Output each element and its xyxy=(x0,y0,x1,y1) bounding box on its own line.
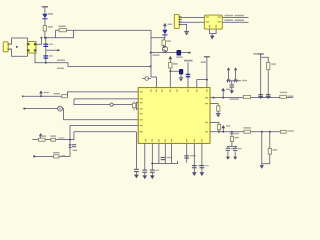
diode D3 xyxy=(69,144,72,148)
resistor R10 xyxy=(280,95,287,98)
wire xyxy=(210,104,218,106)
wire xyxy=(151,77,156,88)
label C16 xyxy=(197,165,201,166)
node P xyxy=(267,97,269,99)
wire row A xyxy=(32,139,74,141)
node Q xyxy=(218,131,220,133)
wire xyxy=(217,111,219,113)
wire pin B8 xyxy=(201,143,203,172)
ground GND11 xyxy=(192,172,197,176)
wire xyxy=(74,99,110,105)
wire xyxy=(45,38,47,63)
node D xyxy=(150,65,152,67)
pins J1 xyxy=(7,44,11,49)
arrow xyxy=(58,49,61,51)
resistor R1 xyxy=(43,26,46,32)
label R6 xyxy=(50,135,56,136)
label R3 xyxy=(166,40,171,41)
capacitor C8 xyxy=(258,94,263,97)
port P1 xyxy=(142,77,151,81)
ground GND8 xyxy=(260,165,264,169)
wire xyxy=(218,130,220,132)
label C2 xyxy=(49,55,53,56)
ground GND5 xyxy=(216,113,221,117)
wire xyxy=(262,154,270,164)
label netF xyxy=(230,133,240,135)
wire xyxy=(182,24,187,31)
resistor R5 xyxy=(38,138,45,141)
node E xyxy=(45,37,47,39)
capacitor C6 xyxy=(72,144,76,147)
wire pin B5 xyxy=(171,143,173,163)
port P2 xyxy=(110,103,113,106)
wire xyxy=(226,80,241,82)
label VCC2 xyxy=(168,24,173,25)
label R16 xyxy=(173,63,178,64)
capacitor C10 xyxy=(226,146,230,156)
wire xyxy=(170,70,181,72)
pin labels U1 left xyxy=(140,91,143,132)
ground GND10 xyxy=(150,175,155,179)
wire xyxy=(231,81,233,85)
op-amp U2 xyxy=(204,15,222,29)
wire xyxy=(197,80,207,88)
node F xyxy=(150,52,152,54)
pin labels U1 bottom xyxy=(145,139,203,142)
pin labels U2 xyxy=(206,16,221,27)
wire xyxy=(181,52,188,54)
label R14 xyxy=(234,137,239,138)
resistor R16 xyxy=(169,62,172,68)
label net5 xyxy=(184,60,193,62)
wire xyxy=(56,29,59,31)
label net4 xyxy=(225,20,245,22)
capacitor C20 xyxy=(230,84,235,87)
node B xyxy=(40,37,42,39)
label R5 xyxy=(39,135,46,136)
node T xyxy=(261,131,263,133)
part U3 xyxy=(27,42,36,54)
wire xyxy=(260,57,262,97)
power VCC3 xyxy=(168,56,172,63)
resistor R11 xyxy=(217,106,220,111)
capacitor C3 xyxy=(177,50,182,56)
node K xyxy=(40,139,42,141)
label VCC8 xyxy=(253,53,258,55)
label C13 xyxy=(155,170,159,171)
wire bus xyxy=(152,161,178,164)
resistor R18 xyxy=(281,130,287,133)
node J xyxy=(69,139,71,141)
wire xyxy=(179,21,204,23)
transistor Q1 xyxy=(162,46,167,52)
label VCC5 xyxy=(44,92,49,93)
wire xyxy=(164,38,165,40)
wire xyxy=(261,132,263,166)
wire xyxy=(45,30,74,38)
wire pin B1 xyxy=(144,143,146,169)
resistor R6 xyxy=(51,138,56,141)
label R7 xyxy=(53,152,60,153)
ground GND4 xyxy=(134,175,139,179)
power VCC6 xyxy=(39,133,42,140)
wire xyxy=(35,53,151,66)
capacitor C14 xyxy=(161,157,166,160)
wire xyxy=(37,38,42,44)
wire row L5 xyxy=(70,125,138,127)
wire xyxy=(62,109,65,120)
wire xyxy=(231,132,233,137)
wire row L4 xyxy=(63,119,138,121)
wire xyxy=(113,104,132,106)
wire xyxy=(179,16,204,18)
wire xyxy=(180,74,182,77)
resistor R4 xyxy=(62,95,68,98)
wire right R1row xyxy=(210,97,293,99)
power VCC8 xyxy=(258,54,264,57)
label C14 xyxy=(166,157,172,158)
label C11 xyxy=(238,148,241,149)
node H xyxy=(206,79,208,81)
node L xyxy=(33,155,35,157)
arrow xyxy=(22,107,25,109)
arrow xyxy=(16,46,19,48)
power VCC5 xyxy=(39,90,43,96)
label C10 xyxy=(231,148,234,149)
label R10 xyxy=(280,92,288,93)
node M xyxy=(213,97,215,99)
wire xyxy=(73,132,75,140)
wire pin B6 xyxy=(186,143,188,162)
resistor R12 xyxy=(217,124,220,129)
capacitor C9 xyxy=(266,94,271,97)
capacitor C12 xyxy=(142,170,147,173)
resistor R9 xyxy=(267,62,270,69)
wire xyxy=(269,132,271,149)
capacitor C11 xyxy=(233,146,237,156)
pin labels U1 top xyxy=(150,89,207,92)
label R13 xyxy=(243,127,251,128)
diode D1 xyxy=(42,14,47,20)
label C19 xyxy=(242,80,247,81)
label R9 xyxy=(271,63,276,64)
wire xyxy=(261,57,269,62)
wire row L3 xyxy=(24,108,57,110)
label C17 xyxy=(205,165,209,166)
wire xyxy=(67,92,138,96)
wire xyxy=(55,30,57,38)
wire xyxy=(231,142,233,147)
node U xyxy=(269,131,271,133)
pins J2 xyxy=(179,17,182,25)
wire loop xyxy=(12,38,28,56)
capacitor C13 xyxy=(150,170,155,173)
wire row L2 xyxy=(74,98,138,100)
capacitor C15 xyxy=(184,155,189,158)
wire xyxy=(227,145,237,147)
capacitor C2 xyxy=(43,55,48,58)
wire xyxy=(44,31,46,38)
node V xyxy=(151,163,153,165)
diode D2 xyxy=(162,30,167,36)
label netA xyxy=(59,137,65,138)
resistor R2 xyxy=(59,29,67,32)
arrow xyxy=(189,51,192,54)
label net3 xyxy=(225,15,245,16)
connector J1 xyxy=(3,42,8,52)
label R2 xyxy=(59,26,66,27)
label net1 xyxy=(57,60,65,61)
wire xyxy=(222,17,248,19)
wire pin B4 xyxy=(164,143,166,163)
ground GND1 xyxy=(184,31,189,35)
capacitor C18 xyxy=(227,79,230,82)
wire xyxy=(151,173,153,176)
wire xyxy=(210,29,217,33)
wire right R4row xyxy=(210,131,285,133)
node R xyxy=(222,131,224,133)
wire xyxy=(169,68,171,88)
wire pin B2 xyxy=(151,143,153,169)
wire xyxy=(210,123,219,125)
label netB xyxy=(62,155,66,156)
label netC xyxy=(230,98,240,100)
node G xyxy=(169,70,171,72)
lamp LS1 xyxy=(58,106,63,111)
label C3 xyxy=(176,56,183,57)
resistor R14 xyxy=(230,137,233,142)
label R4 xyxy=(54,93,61,94)
wire row L1 xyxy=(22,95,62,97)
IC U1 xyxy=(138,88,210,144)
capacitor C19 xyxy=(234,79,237,82)
wire pin B3 xyxy=(158,143,160,163)
power VCC7 xyxy=(221,88,225,98)
capacitor C7 xyxy=(134,169,139,172)
label C15 xyxy=(190,155,196,156)
wire xyxy=(231,88,233,91)
label VCC7 xyxy=(226,89,231,90)
wire xyxy=(267,70,269,98)
node I xyxy=(40,95,42,97)
wire xyxy=(222,21,248,23)
node S xyxy=(231,131,233,133)
capacitor C4 xyxy=(179,69,183,74)
pin labels U1 right xyxy=(205,97,208,132)
node N xyxy=(222,97,224,99)
ground GND12 xyxy=(200,172,205,176)
wire xyxy=(67,30,152,77)
label D3 xyxy=(73,150,78,151)
resistor R15 xyxy=(268,149,271,155)
ground GND13 xyxy=(230,90,234,93)
label R15 xyxy=(272,149,277,150)
power VCC11 xyxy=(234,67,237,80)
connector J2 xyxy=(174,14,179,28)
ground GND7 xyxy=(233,157,237,160)
label VCC9 xyxy=(226,125,231,126)
node O xyxy=(260,97,262,99)
power VCC10 xyxy=(227,67,230,80)
label C1 xyxy=(49,44,53,45)
ground GND2 xyxy=(210,34,215,40)
label Q1 xyxy=(153,54,160,55)
resistor R7 xyxy=(54,155,59,158)
power VCC9 xyxy=(221,125,225,132)
resistor R17 xyxy=(243,95,250,98)
wire row L6 xyxy=(74,131,136,133)
node C xyxy=(45,62,47,64)
label net2 xyxy=(57,68,64,69)
label R1 xyxy=(48,26,53,27)
capacitor C5 xyxy=(186,74,190,78)
crystal Y1 xyxy=(132,101,138,111)
ground GND6 xyxy=(226,157,230,160)
wire xyxy=(46,49,58,51)
power VCC2 xyxy=(163,23,167,30)
wire xyxy=(44,19,46,25)
label netE xyxy=(287,130,294,131)
ground GND3 xyxy=(179,78,183,82)
capacitor C17 xyxy=(200,165,205,168)
wire xyxy=(151,52,177,54)
arrow xyxy=(22,95,24,97)
node A xyxy=(44,37,46,39)
label VCC4 xyxy=(201,61,206,63)
wire xyxy=(69,126,71,157)
ground GND9 xyxy=(143,175,148,179)
capacitor C16 xyxy=(192,165,197,168)
wire row B xyxy=(34,155,70,157)
label D1 xyxy=(48,13,53,14)
wire xyxy=(187,62,189,87)
resistor R13 xyxy=(244,130,251,133)
wire pin B7 xyxy=(193,143,195,172)
label netD xyxy=(288,96,294,97)
pins U3 xyxy=(27,43,37,51)
power VCC1 xyxy=(42,7,48,14)
wire xyxy=(144,173,146,176)
wire xyxy=(135,172,137,175)
wire xyxy=(135,132,137,169)
power VCC4 xyxy=(204,57,210,88)
capacitor C1 xyxy=(43,44,48,47)
resistor R3 xyxy=(162,40,165,46)
wire xyxy=(151,35,165,37)
